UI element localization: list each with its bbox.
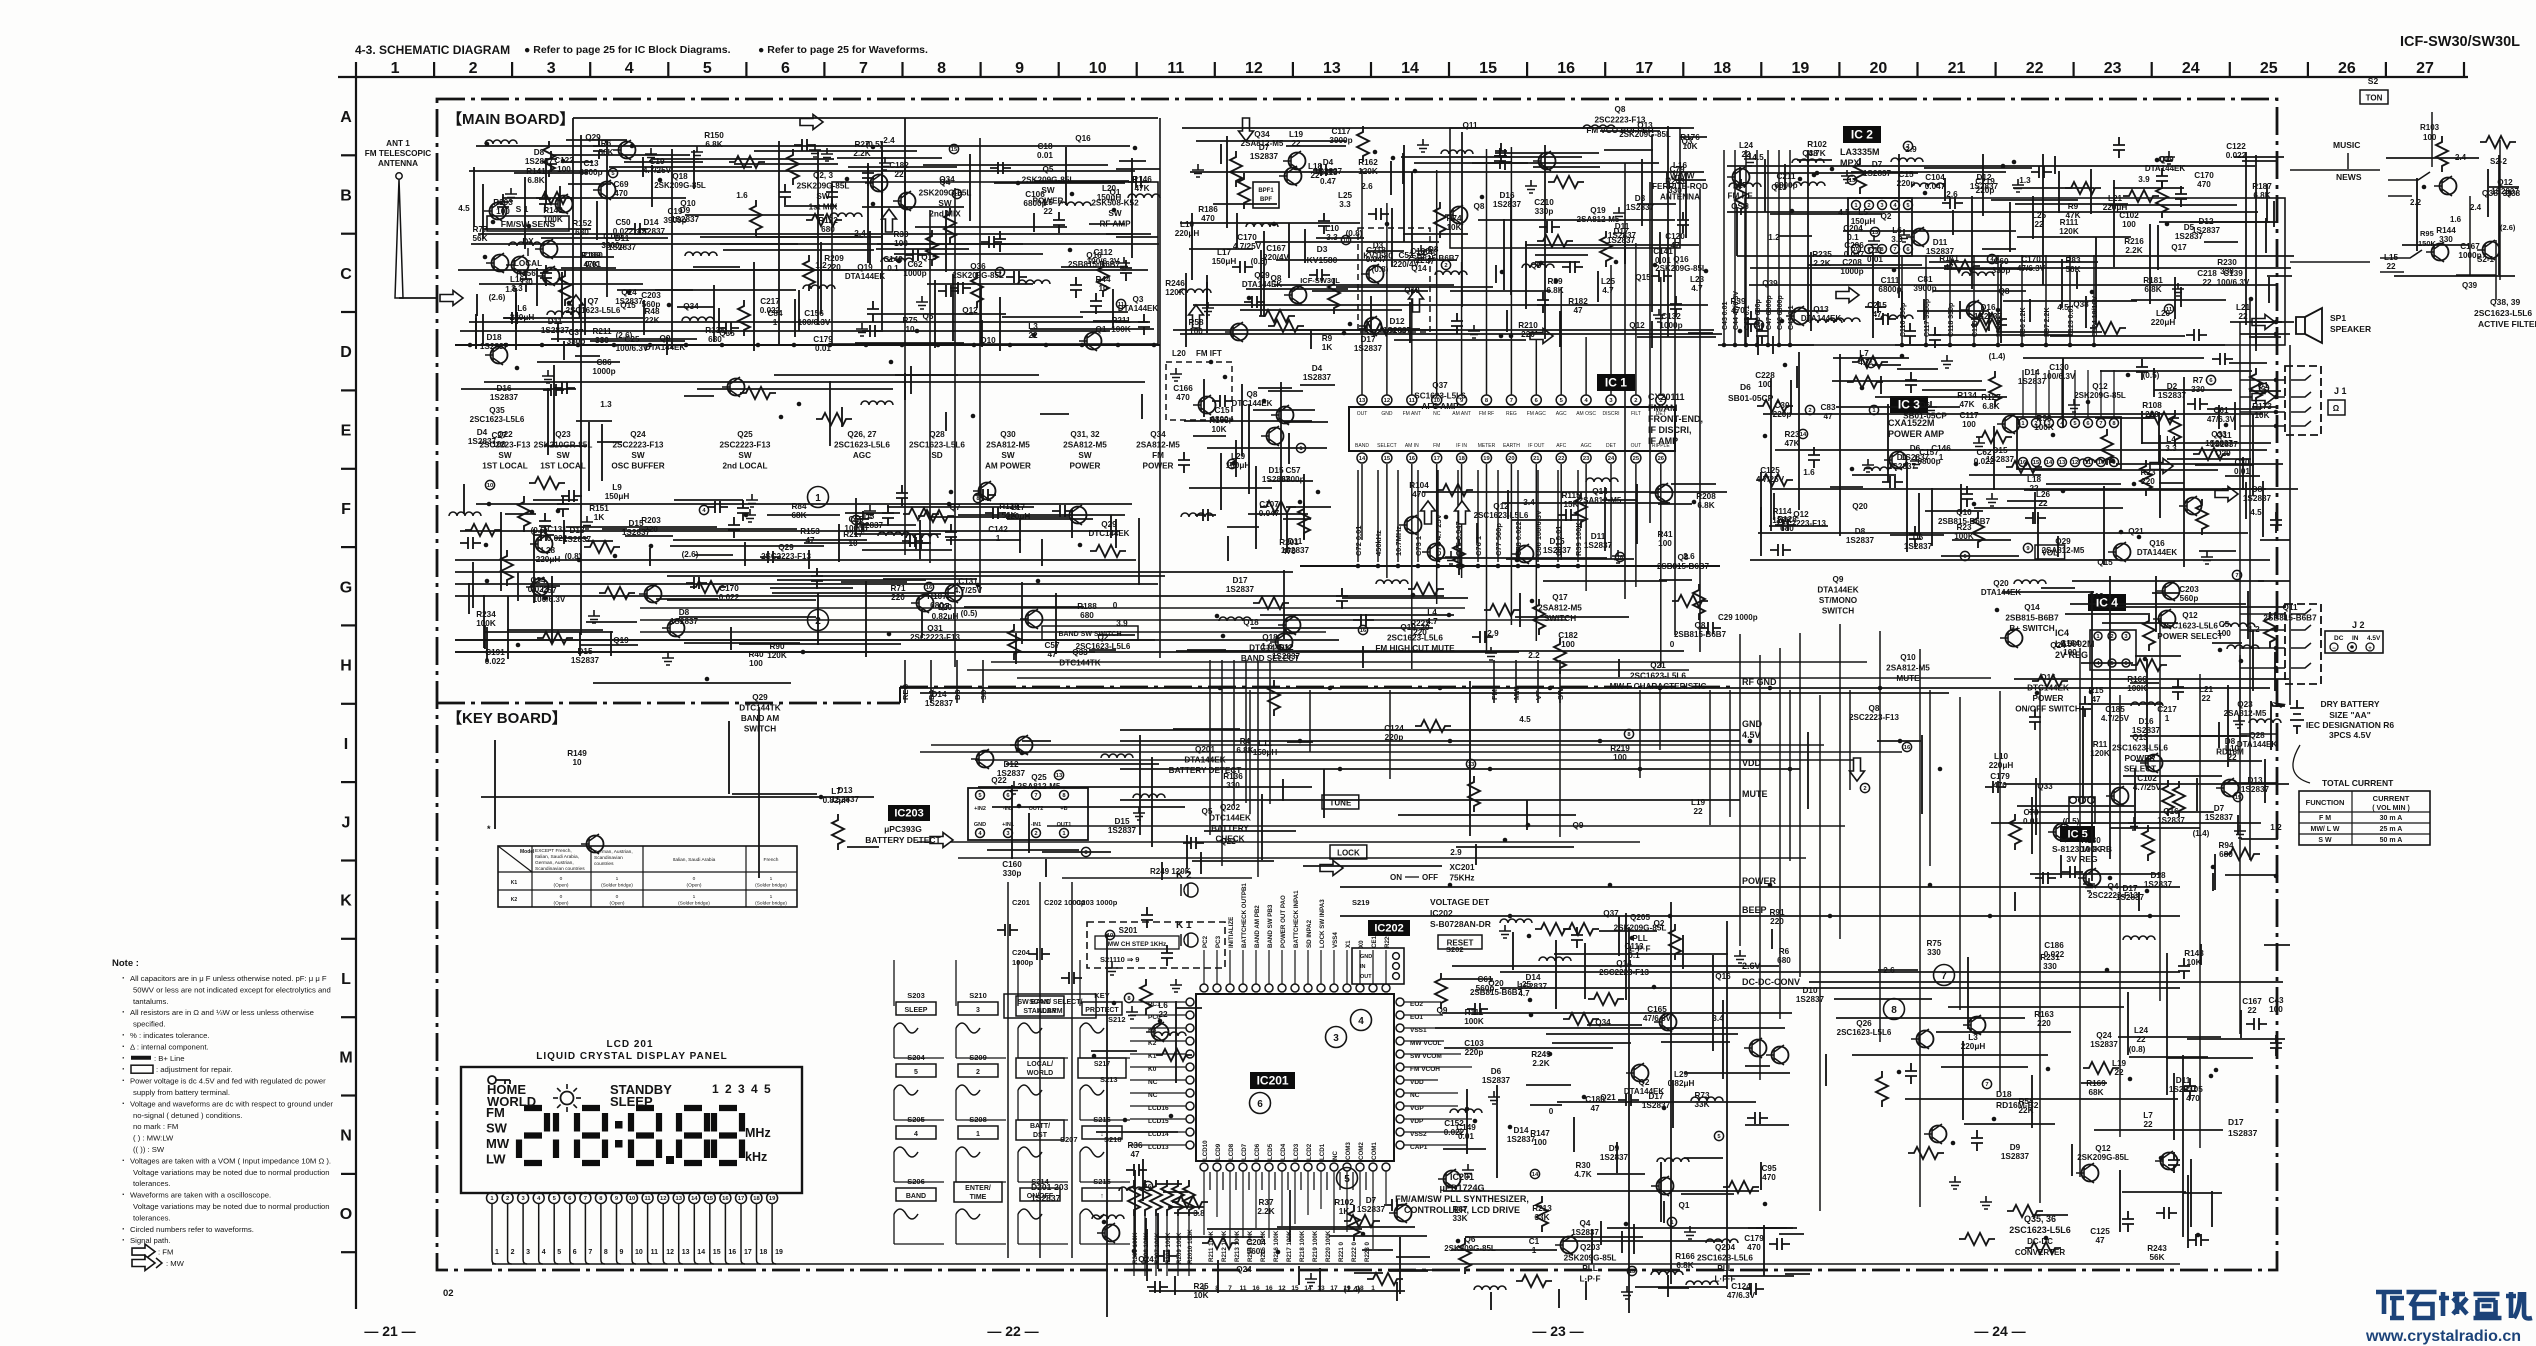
svg-text:0.022: 0.022	[485, 657, 506, 666]
svg-text:10: 10	[905, 325, 915, 334]
svg-text:18: 18	[1713, 60, 1731, 77]
svg-text:13: 13	[1872, 230, 1879, 236]
svg-text:22: 22	[1741, 150, 1751, 159]
svg-text:1S2837: 1S2837	[1108, 826, 1137, 835]
svg-text:Voltage variations may be note: Voltage variations may be noted due to n…	[133, 1168, 330, 1177]
svg-text:1st MIX: 1st MIX	[809, 203, 838, 212]
svg-text:Q28: Q28	[2249, 731, 2265, 740]
svg-text:supply from battery terminal.: supply from battery terminal.	[133, 1088, 230, 1097]
svg-text:L19: L19	[1289, 130, 1304, 139]
svg-text:3900p: 3900p	[1329, 136, 1352, 145]
svg-text:L20: L20	[2156, 309, 2171, 318]
svg-text:C203: C203	[2179, 585, 2199, 594]
svg-text:( ) : MW:LW: ( ) : MW:LW	[133, 1134, 174, 1143]
svg-text:8: 8	[937, 60, 946, 77]
svg-text:47: 47	[1944, 263, 1954, 272]
svg-text:(0.5): (0.5)	[961, 609, 978, 618]
svg-text:19: 19	[1483, 456, 1490, 462]
svg-text:1: 1	[815, 493, 821, 504]
svg-text:6.8K: 6.8K	[705, 140, 722, 149]
svg-text:IC201: IC201	[1450, 1172, 1474, 1182]
svg-text:BAND AM: BAND AM	[741, 714, 780, 723]
svg-text:11: 11	[1118, 302, 1125, 308]
svg-text:S 1: S 1	[516, 204, 529, 214]
svg-text:Q36: Q36	[970, 262, 986, 271]
svg-text:2.2K: 2.2K	[2125, 246, 2142, 255]
svg-text:7: 7	[1985, 1082, 1988, 1088]
svg-text:100K: 100K	[2127, 684, 2147, 693]
svg-text:10K: 10K	[1446, 223, 1461, 232]
svg-text:220μH: 220μH	[2151, 318, 2176, 327]
svg-text:L4: L4	[2166, 435, 2176, 444]
svg-text:C165: C165	[1647, 1005, 1667, 1014]
svg-text:C117 3900p: C117 3900p	[1924, 299, 1931, 337]
svg-text:10 ⇒ 9: 10 ⇒ 9	[1117, 955, 1140, 964]
svg-text:R127: R127	[1981, 393, 2001, 402]
svg-text:K: K	[340, 893, 352, 910]
svg-text:4.7: 4.7	[1858, 358, 1870, 367]
svg-text:7: 7	[1510, 398, 1513, 404]
svg-text:— 22 —: — 22 —	[987, 1323, 1038, 1339]
svg-text:R211: R211	[1111, 316, 1131, 325]
svg-text:15: 15	[951, 147, 958, 153]
svg-text:R95: R95	[2420, 229, 2434, 238]
svg-text:C1: C1	[1529, 1237, 1540, 1246]
svg-text:(2.6): (2.6)	[2500, 223, 2516, 232]
svg-text:1S2837: 1S2837	[1031, 1193, 1061, 1203]
svg-text:C149: C149	[883, 255, 903, 264]
svg-text:47/6.3V: 47/6.3V	[1727, 1291, 1756, 1300]
svg-text:D8: D8	[2252, 485, 2263, 494]
svg-text:150K: 150K	[2418, 239, 2437, 248]
svg-text:14: 14	[697, 1249, 705, 1256]
svg-text:11: 11	[853, 518, 860, 524]
svg-text:MW: MW	[486, 1136, 510, 1151]
svg-text:C111: C111	[1881, 276, 1900, 285]
svg-text:D6: D6	[1491, 1067, 1502, 1076]
svg-text:S204: S204	[907, 1053, 925, 1062]
svg-text:Q39: Q39	[2462, 281, 2478, 290]
svg-text:C29 1000p: C29 1000p	[1718, 613, 1758, 622]
svg-text:LCD7: LCD7	[1241, 1143, 1248, 1160]
svg-text:CAP1: CAP1	[1410, 1144, 1428, 1151]
svg-text:Q2: Q2	[1654, 919, 1665, 928]
svg-text:7: 7	[588, 1249, 592, 1256]
svg-text:C191: C191	[485, 648, 505, 657]
svg-text:1S2837: 1S2837	[2205, 813, 2234, 822]
svg-text:Q16: Q16	[2163, 807, 2179, 816]
svg-text:2SC1623-L5L6: 2SC1623-L5L6	[2474, 308, 2532, 318]
svg-text:2SA812-M5: 2SA812-M5	[1063, 441, 1107, 450]
svg-text:19: 19	[769, 1196, 776, 1202]
svg-text:SELECT: SELECT	[2124, 765, 2156, 774]
svg-text:countries: countries	[594, 861, 614, 867]
svg-text:SW: SW	[556, 451, 569, 460]
svg-text:18: 18	[760, 1249, 768, 1256]
svg-text:0.022: 0.022	[2226, 151, 2247, 160]
svg-text:MPX: MPX	[1840, 158, 1860, 168]
svg-text:1S2837: 1S2837	[2018, 377, 2047, 386]
svg-text:R136: R136	[1223, 772, 1243, 781]
svg-text:Q34: Q34	[1595, 1018, 1611, 1027]
svg-text:120K: 120K	[2059, 227, 2079, 236]
svg-text:D3: D3	[1635, 194, 1646, 203]
svg-text:RF AMP: RF AMP	[1099, 220, 1131, 229]
svg-text:4: 4	[1358, 1016, 1364, 1027]
svg-text:R222 0: R222 0	[1351, 1241, 1358, 1262]
svg-text:22: 22	[894, 170, 904, 179]
svg-text:R186: R186	[1198, 205, 1218, 214]
svg-text:+B: +B	[1060, 806, 1067, 812]
svg-text:680: 680	[708, 335, 722, 344]
svg-text:Scandinavian countries: Scandinavian countries	[535, 866, 585, 872]
svg-text:Q9: Q9	[1437, 1006, 1448, 1015]
svg-text:FM: FM	[1433, 443, 1440, 449]
svg-text:47: 47	[1047, 650, 1057, 659]
svg-text:Q2: Q2	[1098, 633, 1109, 642]
svg-text:C113: C113	[1624, 942, 1644, 951]
svg-text:Q9: Q9	[1573, 821, 1584, 830]
svg-text:C201: C201	[1012, 898, 1030, 907]
svg-text:DTA144EK: DTA144EK	[1981, 588, 2022, 597]
svg-text:220: 220	[2145, 410, 2159, 419]
svg-text:Q34: Q34	[683, 302, 699, 311]
svg-text:NC: NC	[1410, 1092, 1420, 1099]
svg-text:Q1: Q1	[1679, 1201, 1690, 1210]
svg-text:2SA812-M5: 2SA812-M5	[1241, 139, 1284, 148]
svg-text:14: 14	[1304, 1285, 1312, 1292]
svg-text:18: 18	[753, 1196, 760, 1202]
svg-text:470: 470	[1201, 214, 1215, 223]
svg-text:MHz: MHz	[745, 1126, 771, 1140]
svg-text:Q6: Q6	[1465, 1235, 1476, 1244]
svg-text:470: 470	[1176, 393, 1190, 402]
svg-text:1000p: 1000p	[903, 269, 926, 278]
svg-text:C75 0.047: C75 0.047	[1454, 521, 1463, 556]
svg-text:1: 1	[1532, 1246, 1537, 1255]
svg-text:DTC144EK: DTC144EK	[1089, 529, 1130, 538]
svg-text:C57: C57	[1285, 466, 1300, 475]
svg-text:1: 1	[2165, 714, 2170, 723]
svg-text:MW F CHARACTERISTIC: MW F CHARACTERISTIC	[1610, 682, 1707, 691]
svg-text:1: 1	[773, 318, 778, 327]
svg-text:D14: D14	[643, 218, 658, 227]
svg-text:C167: C167	[2242, 997, 2262, 1006]
svg-text:R203: R203	[641, 516, 661, 525]
svg-text:SB01-05CP: SB01-05CP	[1728, 393, 1774, 403]
svg-text:C106: C106	[1025, 190, 1045, 199]
svg-text:C78 0.022: C78 0.022	[1514, 521, 1523, 556]
svg-text:NC: NC	[1332, 1151, 1339, 1160]
svg-text:1S2837: 1S2837	[571, 656, 600, 665]
svg-text:Voltage variations may be note: Voltage variations may be noted due to n…	[133, 1202, 330, 1211]
svg-text:15: 15	[2235, 795, 2242, 801]
svg-text:DTA144EK: DTA144EK	[1801, 314, 1842, 323]
svg-text:2SC2223-F13: 2SC2223-F13	[1849, 713, 1899, 722]
svg-text:1: 1	[996, 534, 1001, 543]
svg-text:150μH: 150μH	[1226, 461, 1251, 470]
svg-text:560p: 560p	[1247, 1247, 1266, 1256]
svg-text:22: 22	[1558, 456, 1564, 462]
svg-text:470: 470	[1731, 306, 1745, 315]
svg-text:3.4: 3.4	[1523, 498, 1535, 507]
svg-text:D8: D8	[534, 148, 545, 157]
svg-text:10: 10	[487, 483, 493, 489]
svg-text:1S2837: 1S2837	[468, 437, 497, 446]
svg-text:1S2837: 1S2837	[2158, 391, 2187, 400]
svg-text:German, Austrian,: German, Austrian,	[535, 860, 574, 866]
svg-text:0: 0	[560, 876, 563, 882]
svg-text:PLL: PLL	[1717, 1264, 1732, 1273]
svg-text:14: 14	[691, 1196, 698, 1202]
svg-text:D11: D11	[1288, 537, 1303, 546]
svg-text:R213: R213	[1532, 1204, 1552, 1213]
svg-text:100: 100	[1561, 640, 1575, 649]
svg-text:2SA812-M5: 2SA812-M5	[2224, 709, 2267, 718]
svg-text:17: 17	[1635, 60, 1653, 77]
svg-text:SP1: SP1	[2330, 313, 2346, 323]
svg-text:Q39: Q39	[2158, 155, 2174, 164]
svg-text:1: 1	[693, 894, 696, 900]
svg-text:220μH: 220μH	[1961, 1042, 1986, 1051]
svg-text:1: 1	[1939, 453, 1944, 462]
svg-text:330p: 330p	[1003, 869, 1022, 878]
svg-text:Q37: Q37	[1603, 909, 1619, 918]
svg-text:12: 12	[2072, 460, 2078, 466]
svg-text:22: 22	[2202, 278, 2212, 287]
svg-text:D14: D14	[1525, 973, 1540, 982]
svg-text:C80 100/6.3V: C80 100/6.3V	[1534, 510, 1543, 556]
svg-text:(0.8): (0.8)	[1372, 265, 1389, 274]
svg-text:FM RF: FM RF	[1727, 192, 1752, 201]
svg-text:D3: D3	[1317, 244, 1328, 254]
svg-text:1S2837: 1S2837	[2132, 726, 2161, 735]
svg-text:2: 2	[1034, 831, 1037, 837]
svg-text:Q21: Q21	[2128, 527, 2144, 536]
svg-text:R243: R243	[1665, 177, 1685, 186]
svg-text:·: ·	[122, 973, 125, 983]
svg-text:C123 0.01: C123 0.01	[2068, 305, 2075, 337]
svg-text:4: 4	[542, 1249, 546, 1256]
svg-text:LOCAL: LOCAL	[514, 259, 542, 268]
svg-text:0.82μH: 0.82μH	[1668, 1079, 1695, 1088]
svg-text:6: 6	[573, 1249, 577, 1256]
svg-text:0.1: 0.1	[1847, 233, 1859, 242]
svg-text:Q1: Q1	[1096, 325, 1107, 334]
svg-text:Q18: Q18	[672, 172, 688, 181]
svg-text:ON/OFF SWITCH: ON/OFF SWITCH	[2015, 705, 2081, 714]
svg-text:: B+ Line: : B+ Line	[154, 1054, 185, 1063]
svg-text:1S2837: 1S2837	[1796, 995, 1825, 1004]
svg-text:C217: C217	[2157, 705, 2177, 714]
svg-text:LCD4: LCD4	[1280, 1143, 1287, 1160]
svg-text:TON: TON	[2366, 94, 2383, 103]
svg-text:33K: 33K	[1534, 1213, 1549, 1222]
svg-text:1000p: 1000p	[1012, 958, 1034, 967]
svg-text:LCD1: LCD1	[1319, 1143, 1326, 1160]
svg-text:J: J	[342, 814, 351, 831]
svg-text:17: 17	[1433, 456, 1439, 462]
svg-text:1S2837: 1S2837	[1571, 1228, 1599, 1237]
svg-text:I: I	[344, 736, 348, 753]
svg-text:6800p: 6800p	[1210, 415, 1233, 424]
svg-text:+: +	[2368, 646, 2372, 652]
svg-text:7: 7	[2235, 573, 2238, 579]
svg-text:R152: R152	[572, 219, 592, 228]
svg-text:450kHz: 450kHz	[1374, 530, 1383, 556]
svg-text:K 1: K 1	[1176, 920, 1192, 931]
svg-text:D15: D15	[1992, 446, 2007, 455]
svg-text:Q20: Q20	[1993, 579, 2009, 588]
svg-text:3: 3	[976, 1007, 980, 1014]
svg-text:R182: R182	[1568, 297, 1588, 306]
svg-text:WORLD: WORLD	[1027, 1070, 1053, 1077]
svg-text:68K: 68K	[791, 511, 806, 520]
svg-text:FM ANT: FM ANT	[1403, 411, 1421, 417]
svg-text:4.7K: 4.7K	[1574, 1170, 1591, 1179]
svg-text:German, Austrian,: German, Austrian,	[594, 849, 633, 855]
svg-text:Q22: Q22	[1220, 837, 1236, 846]
svg-text:Q9: Q9	[1531, 261, 1542, 270]
svg-text:S205: S205	[907, 1115, 925, 1124]
svg-text:C125: C125	[1760, 466, 1780, 475]
svg-text:Q5: Q5	[1202, 807, 1213, 816]
svg-text:100: 100	[557, 165, 571, 174]
svg-text:Q2: Q2	[1639, 1078, 1650, 1087]
svg-text:22: 22	[1291, 139, 1301, 148]
svg-text:SPEAKER: SPEAKER	[2330, 324, 2371, 334]
svg-text:LCD2: LCD2	[1306, 1143, 1313, 1160]
svg-text:22: 22	[2136, 1035, 2146, 1044]
svg-text:-IN2: -IN2	[1003, 806, 1013, 812]
svg-text:C170: C170	[1237, 233, 1257, 242]
svg-text:D11: D11	[1615, 222, 1630, 231]
svg-text:R30: R30	[1575, 1161, 1590, 1170]
svg-text:D14: D14	[2024, 368, 2039, 377]
svg-text:14: 14	[1532, 1172, 1539, 1178]
svg-text:120K: 120K	[767, 651, 787, 660]
svg-text:【KEY BOARD】: 【KEY BOARD】	[447, 709, 567, 727]
svg-text:2SC1623-L5L6: 2SC1623-L5L6	[1697, 1254, 1753, 1263]
svg-text:13: 13	[1056, 773, 1063, 779]
svg-text:C206: C206	[1844, 241, 1864, 250]
svg-text:ICF-SW30/SW30L: ICF-SW30/SW30L	[2400, 34, 2520, 50]
svg-text:DTC144TK: DTC144TK	[739, 704, 780, 713]
svg-text:D6: D6	[1910, 444, 1921, 453]
svg-text:10.7MHz: 10.7MHz	[1394, 526, 1403, 556]
svg-text:2nd MIX: 2nd MIX	[929, 210, 961, 219]
svg-text:R246: R246	[1165, 279, 1185, 288]
svg-text:R94: R94	[2218, 841, 2233, 850]
svg-text:680: 680	[575, 228, 589, 237]
svg-text:330: 330	[519, 278, 533, 287]
svg-text:C18: C18	[1037, 142, 1052, 151]
svg-text:FM AGC: FM AGC	[1527, 411, 1547, 417]
svg-text:POWER: POWER	[1070, 462, 1101, 471]
svg-text:LW: LW	[486, 1152, 506, 1167]
svg-text:2nd LOCAL: 2nd LOCAL	[722, 462, 767, 471]
svg-text:100/6.3V: 100/6.3V	[2043, 372, 2076, 381]
svg-text:330: 330	[1927, 948, 1941, 957]
svg-text:Q8: Q8	[1474, 202, 1485, 211]
svg-text:L23: L23	[1690, 275, 1705, 284]
svg-text:FM TELESCOPIC: FM TELESCOPIC	[365, 149, 431, 158]
svg-text:C142: C142	[988, 525, 1008, 534]
svg-text:47: 47	[1872, 310, 1882, 319]
svg-text:100: 100	[2217, 629, 2231, 638]
svg-text:L19: L19	[1691, 798, 1706, 807]
svg-text:Q29: Q29	[752, 693, 768, 702]
svg-text:1K: 1K	[594, 513, 605, 522]
svg-text:*: *	[487, 824, 491, 834]
svg-text:330: 330	[2191, 385, 2205, 394]
svg-text:L24: L24	[2134, 1026, 2149, 1035]
svg-text:Q9: Q9	[1833, 575, 1844, 584]
svg-text:100: 100	[1962, 420, 1976, 429]
svg-text:Q26: Q26	[1856, 1019, 1872, 1028]
svg-text:1S2837: 1S2837	[855, 521, 884, 530]
svg-text:(( )) : SW: (( )) : SW	[133, 1145, 165, 1154]
svg-text:Q19: Q19	[2088, 592, 2104, 601]
svg-text:C103: C103	[1464, 1039, 1484, 1048]
svg-text:Q11: Q11	[2216, 431, 2231, 440]
svg-text:100K: 100K	[1111, 325, 1131, 334]
svg-text:2SB815-B6B7: 2SB815-B6B7	[2005, 614, 2059, 623]
svg-text:Q37: Q37	[1432, 381, 1448, 390]
svg-text:Q2: Q2	[1881, 212, 1892, 221]
svg-text:680: 680	[821, 225, 835, 234]
svg-text:Q12: Q12	[1493, 502, 1509, 511]
svg-text:3900p: 3900p	[601, 241, 624, 250]
svg-text:3: 3	[547, 60, 556, 77]
svg-text:6.8K: 6.8K	[2144, 285, 2161, 294]
svg-text:L25: L25	[1601, 277, 1616, 286]
svg-text:C116 330p: C116 330p	[1900, 303, 1907, 337]
svg-text:French: French	[764, 857, 779, 863]
svg-text:OSC BUFFER: OSC BUFFER	[611, 462, 664, 471]
svg-text:tolerances.: tolerances.	[133, 1179, 171, 1188]
svg-text:2SC2223-F13: 2SC2223-F13	[910, 633, 960, 642]
svg-text:6800p: 6800p	[1023, 199, 1046, 208]
svg-text:C167: C167	[1266, 244, 1286, 253]
svg-text:R11: R11	[2093, 740, 2108, 749]
svg-text:2: 2	[1634, 398, 1637, 404]
svg-text:Q20: Q20	[1852, 502, 1868, 511]
svg-text:GND: GND	[1742, 719, 1763, 729]
svg-text:MUSIC: MUSIC	[2333, 140, 2360, 150]
svg-text:LOCK SW INPA3: LOCK SW INPA3	[1319, 899, 1326, 948]
svg-text:220μH: 220μH	[1989, 761, 2014, 770]
svg-text:Q15: Q15	[1635, 273, 1651, 282]
svg-text:All resistors are in Ω and ¼W: All resistors are in Ω and ¼W or less un…	[130, 1008, 314, 1017]
svg-text:Q16: Q16	[1673, 255, 1689, 264]
svg-text:Q29: Q29	[778, 543, 794, 552]
svg-text:2SB815-B6B7: 2SB815-B6B7	[1068, 260, 1121, 269]
svg-text:50 m A: 50 m A	[2380, 837, 2403, 844]
svg-text:C211: C211	[1776, 172, 1796, 181]
svg-text:4.7/25V: 4.7/25V	[643, 166, 672, 175]
svg-text:Q30: Q30	[1000, 430, 1016, 439]
svg-text:DTA144EK: DTA144EK	[2145, 164, 2186, 173]
svg-text:S209: S209	[969, 1053, 987, 1062]
svg-text:·: ·	[122, 1053, 125, 1063]
svg-text:13: 13	[1317, 1285, 1325, 1292]
svg-text:ICF-SW30L: ICF-SW30L	[1300, 276, 1340, 285]
svg-text:Q8: Q8	[1695, 621, 1706, 630]
svg-text:CONVERTER: CONVERTER	[2015, 1248, 2065, 1257]
svg-text:C69: C69	[613, 180, 628, 189]
svg-text:D13: D13	[569, 526, 584, 535]
